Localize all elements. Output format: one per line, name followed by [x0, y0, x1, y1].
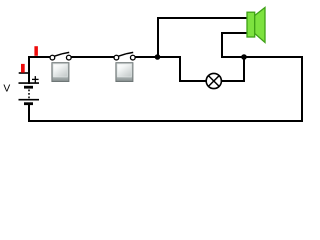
- node B junction: [241, 54, 247, 60]
- red current indicator on battery lead: [19, 64, 30, 74]
- speaker LS1: [247, 8, 265, 43]
- node A junction: [155, 54, 161, 60]
- wire node A up to speaker top terminal: [158, 18, 247, 57]
- switch S1 (push-to-make, open): [50, 52, 71, 60]
- wire node B right edge and bottom return to battery negative: [29, 57, 302, 121]
- wire S1 to S2: [71, 56, 114, 58]
- wire S2 to node A: [135, 56, 158, 58]
- push button actuator of S1: [52, 63, 69, 82]
- battery V (multi-cell): [19, 76, 40, 105]
- push button actuator of S2: [116, 63, 133, 82]
- wire battery positive to switch S1: [29, 57, 50, 84]
- red current indicator on top wire: [34, 46, 38, 56]
- wire lamp to node B: [222, 57, 244, 81]
- lamp L1: [206, 73, 221, 88]
- wire speaker bottom terminal to node B: [222, 33, 247, 57]
- svg-text:V: V: [3, 84, 10, 95]
- switch S2 (push-to-make, open): [114, 52, 135, 60]
- wire node A down to lamp: [158, 57, 206, 81]
